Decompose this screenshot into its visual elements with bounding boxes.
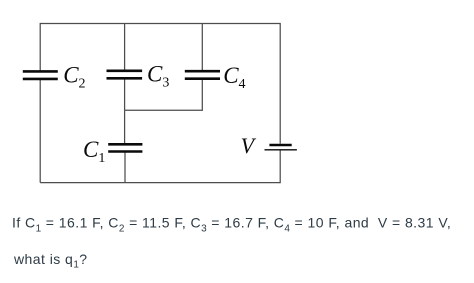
wire C1 branch upper (connector to C1) — [124, 110, 126, 143]
capacitor C2 plates — [23, 71, 58, 79]
svg-text:V: V — [241, 133, 257, 158]
svg-text:If C1 = 16.1 F, C2 = 11.5 F, C: If C1 = 16.1 F, C2 = 11.5 F, C3 = 16.7 F… — [12, 215, 451, 235]
wire left lower (C2 to bottom rail) — [39, 80, 41, 183]
wire left upper (top rail to C2) — [39, 23, 41, 71]
svg-text:C4: C4 — [223, 63, 245, 92]
wire right upper (top rail to battery) — [279, 23, 281, 144]
wire top rail — [40, 23, 280, 25]
wire C3 branch lower (C3 to connector) — [124, 80, 126, 111]
wire C4 branch upper (top rail to C4) — [201, 24, 203, 71]
capacitor C4 plates — [185, 71, 220, 79]
wire C3 branch upper (top rail to C3) — [124, 24, 126, 71]
capacitor C1 plates — [108, 144, 142, 151]
svg-text:C2: C2 — [63, 62, 85, 91]
wire connector (node between C3/C4 and C1) — [125, 109, 203, 111]
wire right lower (battery to bottom rail) — [279, 150, 281, 183]
capacitor C3 plates — [107, 71, 143, 79]
wire C1 branch lower (C1 to bottom rail) — [124, 152, 126, 182]
svg-text:what is q1?: what is q1? — [13, 251, 87, 271]
svg-text:C1: C1 — [83, 137, 105, 166]
wire bottom rail — [40, 182, 280, 184]
battery V plates — [265, 145, 297, 150]
svg-text:C3: C3 — [147, 62, 169, 91]
wire C4 branch lower (C4 to connector) — [201, 80, 203, 111]
